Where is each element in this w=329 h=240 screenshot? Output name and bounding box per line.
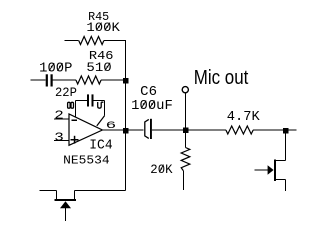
wire Q2 source down [285,180,287,192]
wire C6 to mic junction [152,129,186,131]
svg-text:2: 2 [54,109,64,123]
wire 100P to R46 [53,79,76,81]
junction mic node [183,128,189,134]
op-amp plus sign [71,139,79,141]
slashed zeros [96,23,101,31]
svg-text:3: 3 [54,131,64,145]
pin 5 rotated glyph [98,102,104,108]
wire pin3 [54,140,69,142]
capacitor C6 straight plate [150,119,152,139]
svg-text:100uF: 100uF [131,99,173,114]
svg-text:100P: 100P [39,62,72,77]
wire 20K bottom lead [183,171,185,190]
svg-text:6: 6 [106,120,117,132]
svg-text:4.7K: 4.7K [227,110,261,125]
wire pin8 top [76,100,88,102]
svg-text:20K: 20K [150,163,173,177]
wire Q1 left lead [39,190,56,192]
junction right node [283,128,289,134]
svg-text:C6: C6 [140,85,157,100]
capacitor 22P plates [87,94,89,106]
wire R46 to junction [101,79,125,81]
wire R45 left lead [65,40,79,42]
wire Q2 gate [255,169,269,171]
wire Q1 drain lead [74,190,125,192]
resistor 4.7K [226,126,253,134]
resistor R45 [79,37,104,45]
wire Q2 drain stub [276,159,286,161]
wire Q1 left vertical [56,191,58,200]
wire mic terminal vertical [185,93,187,130]
wire R45 right lead [104,40,126,42]
junction R46/feedback [123,78,129,84]
wire opamp out to C6 [102,129,143,131]
wire 20K top lead [185,130,187,148]
capacitor 100P plates [46,74,48,86]
wire pin5 vertical [104,101,106,116]
junction output/feedback [123,128,129,134]
svg-text:100K: 100K [86,21,120,35]
wire 4.7K to right junction [253,129,296,131]
op-amp minus sign [72,120,78,122]
capacitor C6 curved plate [145,119,149,138]
wire pin5 diagonal [97,116,105,126]
wire Q1 right vertical [73,191,75,200]
wire feedback vertical [125,41,127,191]
svg-text:22P: 22P [55,86,77,100]
mic out terminal circle [182,87,188,93]
wire Q2 source stub [276,179,286,181]
svg-text:510: 510 [86,61,111,75]
wire mic junction to 4.7K [186,129,226,131]
transistor Q1 gate arrow [60,201,71,208]
svg-text:NE5534: NE5534 [63,154,109,168]
wire pin8 stub [75,101,77,117]
transistor Q1 channel bar [55,199,77,201]
op-amp IC4 triangle [69,114,102,145]
svg-text:IC4: IC4 [89,139,112,154]
transistor Q2 channel bar [274,160,276,182]
pin 8 rotated glyph [68,102,74,108]
wire Q1 gate vertical [64,208,66,221]
wire pin5 top [94,100,105,102]
wire pin2 [54,118,69,120]
transistor Q2 gate arrow [268,165,274,174]
wire 100P left lead [31,79,46,81]
resistor R46 [76,76,101,84]
svg-text:Mic out: Mic out [194,67,249,89]
resistor 20K vertical [181,148,190,171]
wire right junction vertical [285,130,287,160]
